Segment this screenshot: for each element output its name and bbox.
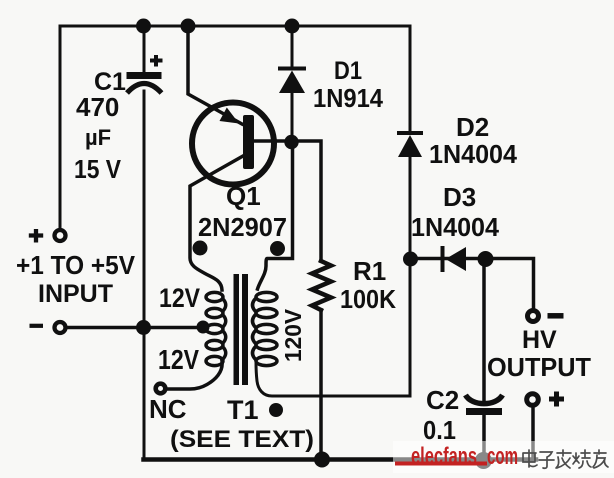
- svg-text:+1 TO +5V: +1 TO +5V: [16, 250, 136, 280]
- svg-text:µF: µF: [85, 125, 111, 150]
- svg-text:D1: D1: [334, 57, 362, 85]
- svg-text:1N4004: 1N4004: [411, 212, 500, 242]
- svg-text:2N2907: 2N2907: [198, 212, 287, 242]
- svg-text:R1: R1: [353, 256, 386, 286]
- svg-text:1N4004: 1N4004: [429, 139, 518, 169]
- svg-text:NC: NC: [149, 394, 187, 424]
- svg-text:T1: T1: [227, 395, 259, 425]
- svg-text:120V: 120V: [280, 308, 306, 362]
- svg-text:(SEE TEXT): (SEE TEXT): [170, 426, 314, 453]
- svg-text:D3: D3: [443, 182, 476, 212]
- svg-text:elecfans: elecfans: [411, 443, 477, 470]
- svg-text:12V: 12V: [159, 283, 200, 313]
- svg-text:HV: HV: [522, 326, 557, 354]
- svg-text:INPUT: INPUT: [38, 280, 113, 308]
- svg-text:470: 470: [76, 92, 119, 122]
- svg-text:15 V: 15 V: [74, 154, 122, 184]
- svg-text:1N914: 1N914: [313, 83, 383, 113]
- svg-text:12V: 12V: [158, 344, 199, 375]
- svg-text:OUTPUT: OUTPUT: [487, 352, 591, 382]
- svg-text:C2: C2: [426, 385, 459, 415]
- svg-text:100K: 100K: [340, 284, 396, 314]
- svg-text:com: com: [487, 443, 518, 470]
- svg-text:D2: D2: [456, 112, 489, 142]
- svg-text:Q1: Q1: [226, 181, 261, 211]
- svg-text:0.1: 0.1: [423, 415, 456, 445]
